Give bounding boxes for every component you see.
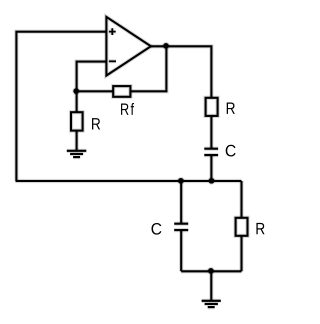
wire node A to Rf [77, 90, 114, 92]
label R3 value R [256, 223, 264, 234]
wire C2 to bottom wire [180, 230, 182, 271]
wire bottom rail [16, 180, 242, 182]
wire rail down to C2 [180, 181, 182, 224]
wire op-amp output to right column [151, 46, 212, 98]
label C2 value C [151, 223, 161, 235]
wire C1 to bottom rail [210, 155, 212, 181]
node junction C2 branch to rail [178, 178, 184, 184]
label R1 value R [92, 118, 100, 129]
wire inverting input: node A up to op-amp - input [77, 62, 107, 92]
wire non-inverting input: from left rail to op-amp + input [16, 32, 106, 181]
wire R2 to C1 [210, 116, 212, 149]
wire feedback: output down to Rf [130, 46, 166, 91]
label R2 value R [227, 103, 235, 114]
capacitor C1 (series RC branch) [204, 149, 218, 155]
ground bottom [202, 301, 221, 307]
resistor Rf [113, 86, 130, 97]
label Rf value [121, 103, 134, 115]
op-amp U1 [106, 17, 150, 76]
label C1 value C [226, 145, 236, 157]
wire ground stem [210, 271, 212, 301]
resistor R1 (left, to ground) [71, 112, 83, 130]
wire node A down to R1 [76, 91, 78, 112]
wire R1 to ground [76, 131, 78, 151]
wire bottom: C2 to R3 [181, 270, 241, 272]
op-amp - input symbol [109, 60, 116, 62]
op-amp + input symbol [109, 28, 116, 35]
capacitor C2 (parallel) [174, 224, 188, 230]
node junction C1 branch to rail [209, 178, 215, 184]
node output junction [163, 43, 169, 49]
wire R3 to bottom wire [240, 236, 242, 271]
resistor R3 (parallel, bottom right) [236, 218, 248, 236]
node junction ground stem [208, 268, 214, 274]
node A junction [73, 88, 79, 94]
ground left [67, 151, 87, 157]
wire rail right down to R3 [240, 181, 242, 218]
resistor R2 (series RC branch) [206, 98, 218, 116]
